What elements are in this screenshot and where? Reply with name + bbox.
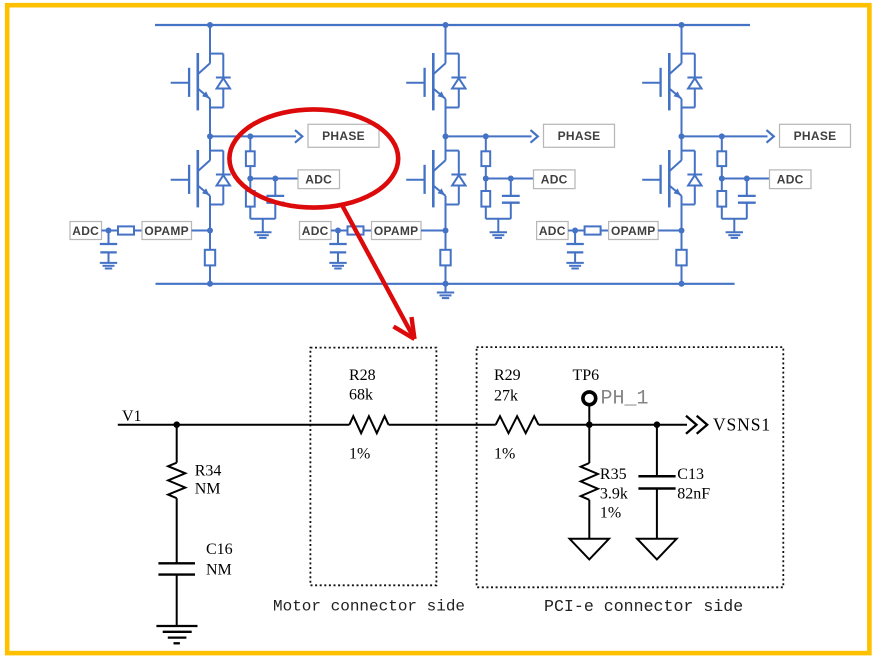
label box: PHASE leg 2 [544, 124, 615, 147]
junction: leg 3 shunt top node [679, 228, 685, 234]
junction: C13 node [654, 421, 661, 428]
label box: ADC leg 1 divider [298, 170, 340, 189]
label box: PHASE leg 3 [780, 124, 851, 147]
wire: leg 2 divider middle [485, 166, 487, 178]
wire: R28 to R29 [389, 424, 496, 426]
svg-text:VSNS1: VSNS1 [713, 415, 771, 435]
value label R35 / 3.9k / 1% [600, 466, 628, 522]
ground: leg 3 divider [726, 219, 743, 238]
wire: leg 3 OPAMP to shunt node [658, 230, 681, 232]
wire: leg 1 high-side collector [209, 25, 211, 63]
junction: leg 2 filter cap node [508, 176, 514, 182]
wire: leg 2 ADC tap [486, 178, 534, 180]
svg-text:PHASE: PHASE [558, 129, 601, 143]
svg-text:Motor connector side: Motor connector side [273, 598, 465, 616]
ground: earth below C16 [156, 626, 197, 643]
svg-text:1%: 1% [349, 446, 370, 463]
svg-text:NM: NM [206, 561, 232, 578]
resistor R35 [581, 425, 598, 500]
wire: leg 2 resistor to OPAMP [364, 230, 372, 232]
wire: leg 3 phase output with arrow [682, 130, 774, 143]
svg-text:27k: 27k [494, 388, 518, 405]
red callout arrow to detail [343, 206, 415, 339]
value label C13 / 82nF [677, 466, 710, 503]
wire: leg 1 resistor to OPAMP [134, 230, 142, 232]
dashed box: PCI-e connector side [477, 347, 784, 587]
wire: leg 3 midpoint [681, 99, 683, 161]
wire: leg 1 phase output with arrow [210, 130, 302, 143]
value label R29 / 27k [494, 367, 521, 405]
ground: leg 2 sense filter [329, 263, 346, 269]
wire: leg 3 emitter down to shunt [681, 196, 683, 250]
junction: V1 node [173, 421, 180, 428]
label box: OPAMP leg 3 [609, 222, 659, 240]
junction: leg 3 phase midpoint node [679, 133, 685, 139]
ground: leg 1 sense filter [100, 263, 117, 269]
wire: leg 3 ADC tap [722, 178, 770, 180]
dashed box: motor connector side [310, 348, 436, 586]
junction: leg 3 bottom bus node [679, 281, 685, 287]
svg-text:C16: C16 [206, 541, 233, 558]
svg-text:R35: R35 [600, 466, 627, 483]
resistor: leg 1 sense series [118, 226, 134, 234]
label box: ADC leg 1 current sense [70, 222, 102, 240]
label box: PHASE leg 1 [308, 124, 379, 147]
svg-text:R34: R34 [195, 463, 222, 480]
svg-text:1%: 1% [494, 446, 515, 463]
resistor: leg 2 divider lower [481, 179, 490, 219]
ground: triangle below C13 [637, 539, 676, 560]
svg-text:R28: R28 [349, 367, 376, 384]
wire: R35 to ground [588, 500, 590, 539]
label box: ADC leg 3 current sense [537, 222, 569, 240]
svg-text:ADC: ADC [305, 173, 332, 187]
resistor: leg 2 sense series [348, 226, 364, 234]
svg-text:C13: C13 [677, 466, 704, 483]
capacitor: leg 1 sense filter [100, 231, 117, 263]
ground: leg 2 divider [490, 219, 507, 238]
wire: R29 to VSNS1 [539, 424, 688, 426]
junction: leg 2 bottom bus node [443, 281, 449, 287]
wire: leg 2 emitter down to shunt [445, 196, 447, 250]
junction: leg 1 phase midpoint node [207, 133, 213, 139]
transistor Q3H high-side leg 3 (IGBT) [642, 53, 695, 110]
wire: leg 3 high-side collector [681, 25, 683, 63]
value label C16 / NM [206, 541, 233, 578]
diode Q3L low-side leg 3D freewheel [687, 151, 702, 205]
svg-text:ADC: ADC [539, 224, 566, 238]
red highlight ellipse [229, 109, 398, 207]
label box: ADC leg 2 divider [534, 170, 576, 189]
junction: PH_1 node [586, 421, 593, 428]
resistor: leg 1 shunt [205, 250, 215, 266]
wire: leg 1 ADC to filter node [102, 230, 119, 232]
junction: leg 1 divider ADC node [247, 176, 253, 182]
junction: leg 1 filter cap node [272, 176, 278, 182]
ground: -DC bus (leg 2) [437, 284, 454, 298]
ground: leg 3 sense filter [566, 263, 583, 269]
junction: leg 3 divider tap on phase wire [719, 133, 725, 139]
resistor R28 [349, 416, 388, 433]
capacitor: leg 1 divider filter [266, 179, 284, 219]
transistor Q1H high-side leg 1 (IGBT) [171, 53, 224, 110]
wire: leg 1 divider bottom join [250, 218, 275, 220]
wire: leg 1 OPAMP to shunt node [192, 230, 211, 232]
test point TP6 [583, 392, 596, 405]
wire: leg 2 midpoint [445, 99, 447, 161]
capacitor C16 [158, 563, 195, 574]
wire: leg 3 divider bottom join [722, 218, 747, 220]
wire: leg 1 ADC tap [250, 178, 298, 180]
diode Q3H high-side leg 3D freewheel [687, 54, 702, 108]
diode Q2L low-side leg 2D freewheel [451, 151, 466, 205]
wire: +DC top bus [155, 24, 750, 26]
wire: leg 3 divider top [721, 136, 723, 151]
svg-text:OPAMP: OPAMP [144, 224, 189, 238]
svg-text:R29: R29 [494, 367, 521, 384]
wire: R34 to C16 [176, 498, 178, 563]
value label R28 / 68k [349, 367, 376, 404]
resistor: leg 2 divider upper [481, 151, 490, 166]
ground: triangle below R35 [570, 539, 609, 560]
wire: TP6 to wire [588, 405, 590, 425]
junction: leg 2 shunt top node [443, 228, 449, 234]
junction: leg 1 shunt top node [207, 228, 213, 234]
ground: leg 1 divider [254, 219, 271, 238]
value label R34 / NM [195, 463, 222, 498]
transistor Q2H high-side leg 2 (IGBT) [406, 53, 459, 110]
label box: ADC leg 2 current sense [300, 222, 332, 240]
junction: leg 2 phase midpoint node [443, 133, 449, 139]
capacitor: leg 2 divider filter [502, 179, 520, 219]
transistor Q1L low-side leg 1 (IGBT) [171, 150, 224, 207]
svg-text:68k: 68k [349, 387, 373, 404]
label box: ADC leg 3 divider [770, 170, 812, 189]
junction: leg 1 top bus node [207, 22, 213, 28]
svg-text:82nF: 82nF [677, 486, 710, 503]
resistor: leg 1 divider upper [246, 151, 255, 166]
junction: leg 2 divider tap on phase wire [483, 133, 489, 139]
wire: leg 2 high-side collector [445, 25, 447, 63]
wire: leg 3 ADC to filter node [568, 230, 585, 232]
wire: leg 1 emitter down to shunt [209, 196, 211, 250]
wire: leg 2 phase output with arrow [446, 130, 538, 143]
wire: leg 1 midpoint [209, 99, 211, 161]
wire: -DC bottom bus [156, 283, 735, 285]
svg-text:OPAMP: OPAMP [611, 224, 656, 238]
wire: V1 to R28 [118, 424, 350, 426]
junction: leg 1 divider tap on phase wire [247, 133, 253, 139]
resistor: leg 2 shunt [440, 250, 450, 266]
diode Q1H high-side leg 1D freewheel [216, 54, 231, 108]
junction: leg 3 divider ADC node [719, 176, 725, 182]
capacitor: leg 3 sense filter [566, 231, 583, 263]
svg-text:V1: V1 [122, 408, 142, 425]
wire: leg 2 ADC to filter node [331, 230, 348, 232]
wire: leg 2 divider bottom join [486, 218, 511, 220]
svg-text:ADC: ADC [777, 173, 804, 187]
net port VSNS1 chevrons [686, 416, 707, 434]
junction: leg 2 sense filter node [335, 228, 341, 234]
resistor: leg 3 divider upper [717, 151, 726, 166]
wire: leg 3 divider middle [721, 166, 723, 178]
wire: leg 2 divider top [485, 136, 487, 151]
svg-text:NM: NM [195, 480, 221, 497]
wire: leg 1 divider top [249, 136, 251, 151]
junction: leg 3 filter cap node [744, 176, 750, 182]
label box: OPAMP leg 2 [372, 222, 422, 240]
svg-text:PHASE: PHASE [794, 129, 837, 143]
svg-text:PCI-e connector side: PCI-e connector side [544, 597, 743, 616]
transistor Q2L low-side leg 2 (IGBT) [406, 150, 459, 207]
resistor: leg 3 shunt [676, 250, 686, 266]
label box: OPAMP leg 1 [142, 222, 192, 240]
wire: leg 1 shunt to -DC bus [209, 265, 211, 283]
junction: leg 1 sense filter node [106, 228, 112, 234]
junction: leg 1 bottom bus node [207, 281, 213, 287]
svg-text:1%: 1% [600, 505, 621, 522]
svg-text:OPAMP: OPAMP [374, 224, 419, 238]
wire: leg 1 divider middle [249, 166, 251, 178]
wire: C16 to ground [176, 575, 178, 626]
resistor: leg 3 sense series [585, 226, 601, 234]
diode Q1L low-side leg 1D freewheel [216, 151, 231, 205]
capacitor: leg 3 divider filter [738, 179, 756, 219]
svg-text:PHASE: PHASE [322, 129, 365, 143]
wire: leg 3 resistor to OPAMP [601, 230, 609, 232]
capacitor: leg 2 sense filter [329, 231, 346, 263]
resistor R34 [168, 425, 185, 499]
wire: leg 2 OPAMP to shunt node [421, 230, 446, 232]
wire: leg 3 shunt to -DC bus [681, 265, 683, 283]
transistor Q3L low-side leg 3 (IGBT) [642, 150, 695, 207]
svg-text:PH_1: PH_1 [601, 388, 649, 411]
junction: leg 3 top bus node [679, 22, 685, 28]
svg-text:TP6: TP6 [573, 367, 600, 384]
wire: leg 2 shunt to -DC bus [445, 265, 447, 283]
svg-text:3.9k: 3.9k [600, 486, 628, 503]
resistor: leg 1 divider lower [246, 179, 255, 219]
svg-text:ADC: ADC [72, 224, 99, 238]
svg-text:ADC: ADC [302, 224, 329, 238]
resistor: leg 3 divider lower [717, 179, 726, 219]
diode Q2H high-side leg 2D freewheel [451, 54, 466, 108]
svg-text:ADC: ADC [541, 173, 568, 187]
junction: leg 2 top bus node [443, 22, 449, 28]
capacitor C13 [638, 425, 675, 539]
resistor R29 [496, 416, 539, 433]
junction: leg 3 sense filter node [572, 228, 578, 234]
junction: leg 2 divider ADC node [483, 176, 489, 182]
